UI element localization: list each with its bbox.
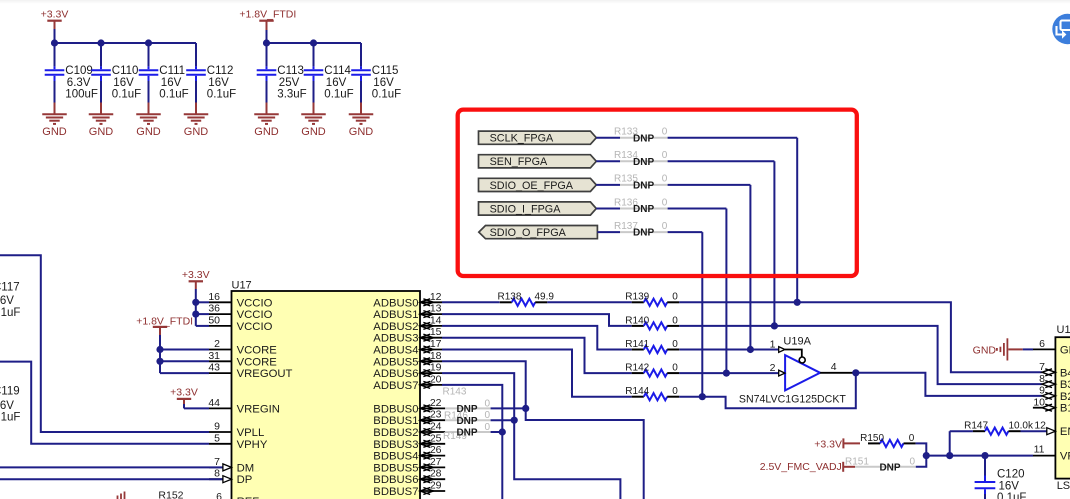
svg-text:R140: R140 bbox=[625, 315, 649, 326]
svg-text:0.1uF: 0.1uF bbox=[0, 412, 20, 424]
capacitor C111 bbox=[148, 43, 150, 66]
svg-text:0: 0 bbox=[662, 127, 668, 138]
wire ADBUS1 to U18 pin8 bbox=[679, 326, 1042, 384]
svg-text:6: 6 bbox=[216, 491, 222, 499]
svg-text:0: 0 bbox=[672, 315, 678, 326]
junction SDIO_OE bbox=[747, 346, 754, 353]
U17 pin 8 DP stub bbox=[209, 478, 232, 480]
svg-text:R147: R147 bbox=[964, 421, 988, 432]
svg-text:23: 23 bbox=[430, 409, 442, 421]
svg-text:GND: GND bbox=[973, 344, 997, 356]
U17 pin 44 VREGIN stub bbox=[209, 407, 232, 409]
junction dots bank1 bbox=[51, 39, 58, 46]
svg-text:SEN_FPGA: SEN_FPGA bbox=[490, 156, 548, 168]
svg-text:7: 7 bbox=[1039, 361, 1045, 373]
junction SDIO_I bbox=[723, 370, 730, 377]
svg-text:BDBUS4: BDBUS4 bbox=[373, 451, 418, 463]
svg-text:0: 0 bbox=[672, 339, 678, 350]
svg-text:1: 1 bbox=[770, 338, 776, 350]
svg-text:+3.3V: +3.3V bbox=[170, 387, 198, 399]
svg-text:ADBUS5: ADBUS5 bbox=[373, 356, 418, 368]
flag SDIO_OE_FPGA bbox=[479, 178, 597, 191]
wire VCCIO rows bbox=[196, 301, 209, 303]
capacitor C110 bbox=[100, 43, 102, 66]
wire ADBUS5 to BDBUS0 bbox=[442, 361, 644, 499]
wire junction row to U18 pin11 bbox=[926, 455, 1033, 457]
wire ADBUS4 to R144 bbox=[442, 350, 632, 397]
svg-text:DNP: DNP bbox=[456, 428, 477, 439]
wire VPHY net from left edge bbox=[0, 362, 209, 444]
svg-text:15: 15 bbox=[430, 326, 442, 338]
svg-text:BDBUS3: BDBUS3 bbox=[373, 439, 418, 451]
U18 pin 12 EN arrow bbox=[1047, 428, 1056, 435]
svg-text:9: 9 bbox=[214, 421, 220, 433]
svg-text:VRE: VRE bbox=[1060, 451, 1070, 463]
junction dots VCCIO bbox=[192, 299, 199, 306]
svg-text:U17: U17 bbox=[232, 280, 252, 292]
resistor R144 0 bbox=[632, 396, 644, 398]
floating blue button bbox=[1052, 14, 1070, 44]
resistor R151 DNP 0 bbox=[855, 466, 916, 468]
resistor R140 0 bbox=[632, 325, 644, 327]
U17 pin 43 VREGOUT stub bbox=[209, 372, 232, 374]
svg-text:49.9: 49.9 bbox=[535, 292, 555, 303]
svg-text:GND: GND bbox=[254, 126, 279, 138]
resistor R141 0 bbox=[632, 349, 644, 351]
U17 pin 16 VCCIO stub bbox=[209, 301, 232, 303]
svg-text:12: 12 bbox=[430, 291, 442, 303]
svg-text:0.1uF: 0.1uF bbox=[207, 89, 236, 101]
svg-text:B1: B1 bbox=[1060, 403, 1070, 415]
svg-text:C111: C111 bbox=[159, 65, 185, 77]
capacitor C112 bbox=[195, 43, 197, 66]
svg-text:VCORE: VCORE bbox=[237, 345, 278, 357]
wire BDBUS2 junction bbox=[491, 431, 503, 433]
resistor R136 DNP 0 bbox=[620, 208, 668, 210]
svg-text:BDBUS2: BDBUS2 bbox=[373, 427, 418, 439]
U17 pin 36 VCCIO stub bbox=[209, 313, 232, 315]
svg-text:31: 31 bbox=[208, 350, 220, 362]
svg-text:44: 44 bbox=[208, 397, 220, 409]
wire VCORE rows bbox=[160, 349, 209, 351]
wire bus +3.3V caps bbox=[55, 42, 197, 44]
wire BDBUS0 junction bbox=[491, 407, 526, 409]
svg-text:8: 8 bbox=[1039, 373, 1045, 385]
svg-text:U19A: U19A bbox=[783, 335, 811, 347]
svg-text:ADBUS2: ADBUS2 bbox=[373, 321, 418, 333]
svg-text:26: 26 bbox=[430, 444, 442, 456]
svg-text:36: 36 bbox=[208, 303, 220, 315]
svg-text:16: 16 bbox=[208, 291, 220, 303]
svg-text:17: 17 bbox=[430, 338, 442, 350]
U19A pin2 arrow bbox=[779, 370, 785, 376]
svg-text:25: 25 bbox=[430, 432, 442, 444]
junction dots VREF row bbox=[923, 452, 930, 459]
svg-text:6.3V: 6.3V bbox=[67, 77, 91, 89]
svg-text:0.1uF: 0.1uF bbox=[997, 492, 1026, 499]
svg-text:16V: 16V bbox=[113, 77, 134, 89]
resistor R137 DNP 0 bbox=[620, 231, 668, 233]
resistor R150 0 bbox=[868, 442, 880, 444]
flag SDIO_I_FPGA bbox=[479, 202, 597, 215]
resistor R142 0 bbox=[632, 372, 644, 374]
svg-text:16V: 16V bbox=[326, 77, 347, 89]
svg-text:B2: B2 bbox=[1060, 391, 1070, 403]
svg-text:16V: 16V bbox=[0, 400, 14, 412]
power +1.8V_FTDI (cap bank 2) bbox=[259, 20, 273, 22]
resistor R149 DNP 0 (BDBUS2) bbox=[445, 431, 490, 433]
junction SDIO_O bbox=[699, 393, 706, 400]
junction dots VCORE bbox=[156, 346, 163, 353]
svg-text:ADBUS0: ADBUS0 bbox=[373, 297, 418, 309]
svg-text:C115: C115 bbox=[372, 65, 399, 77]
svg-text:0: 0 bbox=[672, 363, 678, 374]
svg-text:0: 0 bbox=[672, 386, 678, 397]
svg-text:SDIO_I_FPGA: SDIO_I_FPGA bbox=[490, 203, 562, 215]
svg-text:50: 50 bbox=[208, 314, 220, 326]
U19A pin1 path bbox=[779, 347, 785, 353]
svg-text:R142: R142 bbox=[625, 363, 649, 374]
svg-text:20: 20 bbox=[430, 373, 442, 385]
svg-text:DNP: DNP bbox=[879, 462, 900, 473]
flag SEN_FPGA bbox=[479, 155, 597, 168]
svg-text:GND: GND bbox=[301, 126, 326, 138]
wire GND to U18 pin6 bbox=[1008, 348, 1022, 350]
svg-text:28: 28 bbox=[430, 468, 442, 480]
svg-text:BDBUS5: BDBUS5 bbox=[373, 462, 418, 474]
junction ADBUS1/SEN bbox=[771, 322, 778, 329]
svg-text:R138: R138 bbox=[497, 292, 521, 303]
svg-text:VCCIO: VCCIO bbox=[237, 321, 273, 333]
svg-text:18: 18 bbox=[430, 350, 442, 362]
svg-text:DNP: DNP bbox=[456, 416, 477, 427]
svg-text:DNP: DNP bbox=[633, 133, 654, 144]
svg-text:LSF0: LSF0 bbox=[1057, 480, 1070, 492]
top page divider bbox=[0, 0, 1070, 2]
svg-text:DNP: DNP bbox=[633, 157, 654, 168]
wire R137 down to row bbox=[668, 231, 703, 233]
svg-text:0: 0 bbox=[909, 433, 915, 444]
U18 pin 8 B3 bbox=[1042, 381, 1052, 388]
svg-text:29: 29 bbox=[430, 480, 442, 492]
U18 pin 10 B1 bbox=[1033, 407, 1042, 409]
svg-text:SCLK_FPGA: SCLK_FPGA bbox=[490, 133, 554, 145]
wire ADBUS0 row bbox=[442, 301, 500, 303]
flag SDIO_O_FPGA bbox=[479, 226, 598, 239]
power +1.8V_FTDI to VCORE bbox=[153, 326, 167, 328]
ground symbol partial bottom left bbox=[117, 496, 119, 499]
svg-text:GND: GND bbox=[184, 126, 209, 138]
svg-text:B3: B3 bbox=[1060, 379, 1070, 391]
svg-text:C112: C112 bbox=[207, 65, 234, 77]
svg-text:VREGIN: VREGIN bbox=[237, 403, 280, 415]
svg-text:BDBUS6: BDBUS6 bbox=[373, 474, 418, 486]
svg-text:10: 10 bbox=[1033, 397, 1045, 409]
flag SCLK_FPGA bbox=[479, 131, 597, 144]
wire R134 down to row bbox=[668, 160, 775, 162]
U18 pin 7 B4 bbox=[1042, 369, 1052, 376]
U17 pin 5 VPHY stub bbox=[209, 443, 232, 445]
svg-text:0.1uF: 0.1uF bbox=[159, 89, 188, 101]
wire R133 down to row bbox=[668, 137, 798, 139]
wire BDBUS1 junction bbox=[491, 419, 515, 421]
svg-text:GND: GND bbox=[42, 126, 67, 138]
svg-text:7: 7 bbox=[214, 456, 220, 468]
svg-text:22: 22 bbox=[430, 397, 442, 409]
power +3.3V to VCCIO bbox=[189, 280, 203, 282]
svg-text:R151: R151 bbox=[845, 457, 869, 468]
svg-text:ADBUS1: ADBUS1 bbox=[373, 309, 418, 321]
svg-text:11: 11 bbox=[1034, 444, 1045, 456]
power +3.3V (cap bank 1) bbox=[47, 20, 61, 22]
wire SEN_FPGA to R134 bbox=[596, 160, 620, 162]
resistor R146 DNP 0 (BDBUS1) bbox=[445, 419, 490, 421]
resistor R147 10.0k bbox=[949, 431, 951, 455]
wire ADBUS2 to R141 bbox=[442, 326, 632, 350]
svg-text:0: 0 bbox=[485, 410, 491, 421]
svg-text:C114: C114 bbox=[324, 65, 351, 77]
svg-text:+3.3V: +3.3V bbox=[41, 9, 69, 21]
svg-text:B4: B4 bbox=[1060, 367, 1070, 379]
U18 LSF chip body bbox=[1055, 337, 1070, 478]
svg-text:R144: R144 bbox=[625, 386, 649, 397]
svg-text:DP: DP bbox=[237, 474, 253, 486]
svg-text:43: 43 bbox=[208, 362, 220, 374]
svg-text:VCORE: VCORE bbox=[237, 356, 278, 368]
wire R151 to junction bbox=[916, 456, 927, 467]
wire ADBUS1 to R140 bbox=[442, 314, 632, 326]
capacitor C115 bbox=[360, 43, 362, 66]
wire ADBUS7 to BDBUS2 bbox=[442, 385, 502, 499]
U19A enable bubble bbox=[799, 357, 805, 363]
svg-text:DM: DM bbox=[237, 462, 255, 474]
svg-text:GND: GND bbox=[1060, 344, 1070, 356]
svg-text:+1.8V_FTDI: +1.8V_FTDI bbox=[136, 315, 193, 327]
svg-text:GND: GND bbox=[349, 126, 374, 138]
svg-text:16V: 16V bbox=[373, 77, 394, 89]
capacitor C113 bbox=[266, 43, 268, 66]
svg-text:U18: U18 bbox=[1057, 324, 1070, 336]
wire bus +1.8V_FTDI caps bbox=[267, 42, 362, 44]
svg-text:0: 0 bbox=[672, 292, 678, 303]
resistor R139 0 bbox=[632, 301, 644, 303]
wire SCLK_FPGA to R133 bbox=[596, 137, 620, 139]
svg-text:GND: GND bbox=[89, 126, 114, 138]
U17 pin 50 VCCIO stub bbox=[209, 325, 232, 327]
svg-text:ADBUS3: ADBUS3 bbox=[373, 333, 418, 345]
svg-text:16V: 16V bbox=[161, 77, 182, 89]
svg-text:C110: C110 bbox=[112, 65, 139, 77]
svg-text:0: 0 bbox=[485, 422, 491, 433]
svg-text:6: 6 bbox=[1039, 338, 1045, 350]
wire R135 down to row bbox=[668, 184, 751, 186]
svg-text:16V: 16V bbox=[0, 295, 14, 307]
wire R142 to U19A pin2 bbox=[679, 372, 779, 374]
svg-text:C117: C117 bbox=[0, 282, 20, 294]
op-amp buffer U19A SN74LVC1G125DCKT bbox=[785, 355, 820, 390]
svg-text:C113: C113 bbox=[277, 65, 304, 77]
svg-text:5: 5 bbox=[214, 432, 220, 444]
svg-text:3.3uF: 3.3uF bbox=[277, 89, 306, 101]
svg-text:R150: R150 bbox=[860, 433, 884, 444]
svg-text:16V: 16V bbox=[208, 77, 229, 89]
svg-text:0: 0 bbox=[662, 221, 668, 232]
svg-text:DNP: DNP bbox=[633, 228, 654, 239]
svg-text:SDIO_O_FPGA: SDIO_O_FPGA bbox=[490, 227, 567, 239]
svg-text:C120: C120 bbox=[997, 469, 1025, 481]
svg-text:R139: R139 bbox=[625, 292, 649, 303]
junction dots bank2 bbox=[263, 39, 270, 46]
svg-text:+3.3V: +3.3V bbox=[814, 438, 842, 450]
svg-text:0: 0 bbox=[910, 457, 916, 468]
svg-text:2: 2 bbox=[770, 362, 776, 374]
svg-text:R141: R141 bbox=[625, 339, 649, 350]
U17 pin 7 DM stub bbox=[209, 466, 232, 468]
capacitor C114 bbox=[313, 43, 315, 66]
svg-text:VPLL: VPLL bbox=[237, 427, 265, 439]
svg-text:BDBUS1: BDBUS1 bbox=[373, 415, 418, 427]
svg-text:0: 0 bbox=[485, 398, 491, 409]
svg-text:2.5V_FMC_VADJ: 2.5V_FMC_VADJ bbox=[760, 461, 842, 473]
svg-text:0: 0 bbox=[662, 150, 668, 161]
wire ADBUS6 to BDBUS1 bbox=[442, 373, 620, 499]
U17 pin 31 VCORE stub bbox=[209, 360, 232, 362]
svg-text:13: 13 bbox=[430, 303, 442, 315]
capacitor C109 bbox=[54, 43, 56, 66]
svg-text:10.0k: 10.0k bbox=[1009, 421, 1034, 432]
svg-text:2: 2 bbox=[214, 338, 220, 350]
svg-text:SN74LVC1G125DCKT: SN74LVC1G125DCKT bbox=[739, 393, 846, 405]
wire R138 to R139 bbox=[547, 301, 631, 303]
svg-text:0.1uF: 0.1uF bbox=[0, 307, 20, 319]
svg-text:ADBUS4: ADBUS4 bbox=[373, 345, 418, 357]
svg-text:0.1uF: 0.1uF bbox=[372, 89, 401, 101]
resistor R135 DNP 0 bbox=[620, 184, 668, 186]
wire R150 to junction bbox=[916, 443, 927, 455]
svg-text:12: 12 bbox=[1034, 420, 1046, 432]
svg-text:+3.3V: +3.3V bbox=[182, 269, 210, 281]
svg-text:100uF: 100uF bbox=[65, 89, 98, 101]
svg-text:BDBUS0: BDBUS0 bbox=[373, 403, 418, 415]
svg-text:VCCIO: VCCIO bbox=[237, 297, 273, 309]
wire SDIO_I_FPGA to R136 bbox=[596, 208, 620, 210]
svg-text:0.1uF: 0.1uF bbox=[324, 89, 353, 101]
wire SDIO_OE_FPGA to R135 bbox=[596, 184, 620, 186]
wire R141 to U19A pin1 bbox=[679, 349, 779, 351]
svg-text:C119: C119 bbox=[0, 386, 20, 398]
svg-text:+1.8V_FTDI: +1.8V_FTDI bbox=[239, 9, 296, 21]
svg-text:25V: 25V bbox=[279, 77, 300, 89]
red highlight box bbox=[458, 110, 857, 276]
wire DP from left edge bbox=[0, 478, 223, 480]
wire R144 to U19A output bbox=[679, 373, 856, 409]
power +3.3V to VREGIN bbox=[177, 398, 191, 400]
wire SDIO_O_FPGA to R137 bbox=[597, 231, 620, 233]
ground symbol at U18 pin6 bbox=[996, 348, 998, 351]
wire VPLL net from left edge bbox=[0, 255, 209, 432]
svg-text:0: 0 bbox=[662, 174, 668, 185]
svg-text:0: 0 bbox=[662, 197, 668, 208]
svg-text:27: 27 bbox=[430, 456, 442, 468]
svg-text:VREGOUT: VREGOUT bbox=[237, 368, 293, 380]
svg-text:DNP: DNP bbox=[633, 181, 654, 192]
svg-text:BDBUS7: BDBUS7 bbox=[373, 486, 418, 498]
svg-text:GND: GND bbox=[136, 126, 161, 138]
svg-text:ADBUS7: ADBUS7 bbox=[373, 380, 418, 392]
resistor R133 DNP 0 bbox=[620, 137, 668, 139]
U17 pin 9 VPLL stub bbox=[209, 431, 232, 433]
svg-text:ADBUS6: ADBUS6 bbox=[373, 368, 418, 380]
svg-text:R152: R152 bbox=[158, 490, 183, 499]
resistor R134 DNP 0 bbox=[620, 160, 668, 162]
svg-text:0.1uF: 0.1uF bbox=[112, 89, 141, 101]
wire U19A output to U18 pin9 bbox=[856, 373, 1042, 396]
U17 pin 2 VCORE stub bbox=[209, 349, 232, 351]
svg-text:EN1: EN1 bbox=[1060, 426, 1070, 438]
U19A output pin4 bbox=[820, 372, 856, 374]
svg-text:24: 24 bbox=[430, 421, 442, 433]
svg-text:8: 8 bbox=[214, 468, 220, 480]
svg-text:C109: C109 bbox=[65, 65, 93, 77]
resistor R143 DNP 0 (BDBUS0) bbox=[445, 407, 490, 409]
svg-text:DNP: DNP bbox=[633, 204, 654, 215]
resistor R138 49.9 bbox=[500, 301, 512, 303]
svg-text:9: 9 bbox=[1039, 385, 1045, 397]
U17 FT2232 chip body bbox=[232, 291, 421, 499]
wire ADBUS3 to R142 bbox=[442, 338, 632, 373]
junction ADBUS0/SCLK bbox=[794, 299, 801, 306]
wire DM from left edge bbox=[0, 466, 223, 468]
svg-text:19: 19 bbox=[430, 362, 442, 374]
svg-text:R143: R143 bbox=[443, 387, 467, 398]
capacitor C120 bbox=[984, 456, 986, 476]
U18 pin 9 B2 bbox=[1042, 392, 1052, 399]
svg-text:VCCIO: VCCIO bbox=[237, 309, 273, 321]
svg-text:14: 14 bbox=[430, 314, 442, 326]
svg-text:VPHY: VPHY bbox=[237, 439, 268, 451]
svg-text:16V: 16V bbox=[999, 481, 1020, 493]
svg-text:SDIO_OE_FPGA: SDIO_OE_FPGA bbox=[490, 180, 574, 192]
wire ADBUS0 to U18 pin7 bbox=[679, 302, 1042, 372]
wire VREGIN bbox=[184, 407, 209, 409]
svg-text:4: 4 bbox=[831, 361, 837, 373]
wire R136 down to row bbox=[668, 208, 727, 210]
